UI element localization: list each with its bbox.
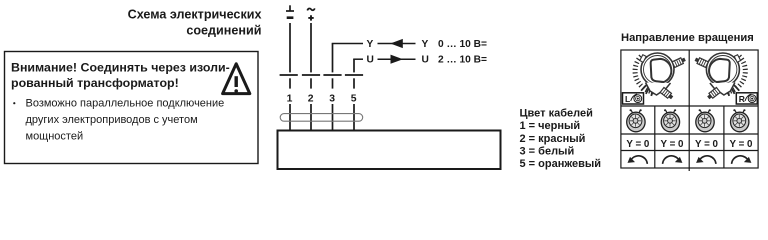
svg-text:1: 1 <box>287 93 293 104</box>
svg-text:R: R <box>739 94 745 104</box>
knob icon 2 <box>661 109 679 132</box>
warning triangle icon <box>223 64 250 94</box>
svg-text:Внимание! Соединять через изол: Внимание! Соединять через изоли- <box>11 61 230 75</box>
warning bold text <box>11 61 230 91</box>
warning bullet text <box>13 98 224 143</box>
terminal bar 2 <box>302 74 320 76</box>
svg-text:Y = 0: Y = 0 <box>695 139 719 150</box>
terminal bar 5 <box>345 74 363 76</box>
rotation arrow cw 4 <box>732 156 752 164</box>
svg-text:2: 2 <box>308 93 314 104</box>
svg-text:Y: Y <box>422 39 429 50</box>
cable colour legend <box>520 108 602 170</box>
svg-text:3 = белый: 3 = белый <box>520 145 575 157</box>
knob icon 1 <box>627 109 645 132</box>
rotation table grid <box>621 50 758 171</box>
svg-text:рованный трансформатор!: рованный трансформатор! <box>11 76 179 90</box>
terminal bar 3 <box>323 74 341 76</box>
svg-text:5 = оранжевый: 5 = оранжевый <box>520 158 602 170</box>
svg-text:Направление вращения: Направление вращения <box>621 32 754 44</box>
L badge <box>623 93 644 104</box>
rotation arrow cw 2 <box>663 156 683 164</box>
svg-text:U: U <box>367 55 374 66</box>
svg-text:U: U <box>422 55 429 66</box>
svg-text:Y: Y <box>367 39 374 50</box>
knob icon 3 <box>696 109 714 132</box>
knob icon 4 <box>731 109 749 132</box>
svg-text:5: 5 <box>351 93 357 104</box>
terminal 5 lead and number <box>351 78 357 130</box>
actuator body rectangle <box>278 131 501 170</box>
svg-text:Схема электрических: Схема электрических <box>128 8 262 22</box>
actuator drawing (left, CCW scale) <box>635 53 686 100</box>
terminal 2 lead and number <box>308 78 314 130</box>
terminal bar 1 <box>280 74 298 76</box>
terminal 1 lead and number <box>287 78 293 130</box>
wire 2 <box>310 23 312 72</box>
cable sleeve (stadium) <box>280 114 363 122</box>
svg-text:L: L <box>625 94 630 104</box>
svg-text:0 … 10 В=: 0 … 10 В= <box>438 39 487 50</box>
wire 1 <box>289 23 291 72</box>
warning note box <box>5 52 259 164</box>
title: Схема электрических соединений <box>128 8 262 38</box>
rotation arrow ccw 1 <box>628 156 648 164</box>
AC symbol ~ + (terminal 2) <box>307 8 314 20</box>
terminal 3 lead and number <box>329 78 335 130</box>
ground symbol (terminal 1) <box>286 5 294 17</box>
svg-text:Y = 0: Y = 0 <box>626 139 650 150</box>
svg-text:Возможно параллельное подключе: Возможно параллельное подключение <box>26 98 225 110</box>
svg-text:2 = красный: 2 = красный <box>520 133 586 145</box>
svg-text:1 = черный: 1 = черный <box>520 120 581 132</box>
svg-text:Y = 0: Y = 0 <box>661 139 685 150</box>
wire 3 (Y branch vertical) <box>332 44 334 73</box>
svg-text:соединений: соединений <box>186 23 261 37</box>
wire 5 (U branch vertical) <box>353 59 355 72</box>
svg-text:3: 3 <box>329 93 335 104</box>
R badge <box>736 93 757 104</box>
svg-text:других электроприводов с учето: других электроприводов с учетом <box>26 114 198 126</box>
svg-text:2 … 10 В=: 2 … 10 В= <box>438 55 487 66</box>
actuator drawing (right, CW scale) <box>694 53 745 100</box>
rotation arrow ccw 3 <box>696 156 716 164</box>
U signal branch <box>353 55 487 66</box>
svg-text:Цвет кабелей: Цвет кабелей <box>520 108 593 120</box>
svg-text:Y = 0: Y = 0 <box>730 139 754 150</box>
svg-text:мощностей: мощностей <box>26 131 84 143</box>
Y signal branch <box>332 39 487 50</box>
